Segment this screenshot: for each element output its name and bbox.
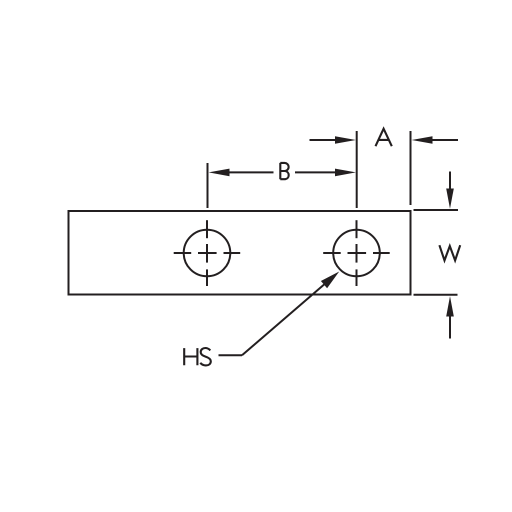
centerline left hole vertical	[206, 220, 208, 286]
hole HS left	[184, 230, 231, 277]
label HS	[184, 348, 211, 365]
dimension B line right segment	[295, 171, 337, 173]
dimension A arrowhead left	[335, 136, 356, 144]
extension line bottom right (W lower)	[414, 294, 458, 296]
dimension A tail line left	[310, 139, 338, 141]
label W	[439, 245, 460, 260]
leader line HS diagonal segment	[242, 282, 327, 355]
label B	[280, 163, 288, 179]
dimension W top arrow tail	[449, 172, 451, 192]
centerline right hole horizontal	[323, 252, 390, 254]
dimension A tail line right	[432, 139, 459, 141]
dimension B arrowhead right	[335, 169, 356, 177]
leader arrowhead at right hole	[321, 272, 339, 289]
dimension A arrowhead right	[412, 136, 433, 144]
dimension W arrowhead down	[446, 189, 454, 209]
dimension B arrowhead left	[209, 169, 230, 177]
extension line left hole (dimension B left)	[207, 163, 209, 208]
extension line right edge (dimension A right)	[410, 131, 412, 205]
bar body outline	[69, 211, 411, 295]
extension line top right (W upper)	[414, 209, 459, 211]
label A	[376, 129, 392, 147]
dimension W bottom arrow tail	[449, 314, 451, 339]
extension line right hole (dimension A/B shared)	[356, 131, 358, 208]
dimension B line left segment	[228, 171, 274, 173]
leader line HS horizontal segment	[219, 354, 243, 356]
hole HS right	[333, 230, 380, 277]
centerline left hole horizontal	[174, 252, 241, 254]
centerline right hole vertical	[356, 220, 358, 286]
dimension W arrowhead up	[446, 296, 454, 316]
